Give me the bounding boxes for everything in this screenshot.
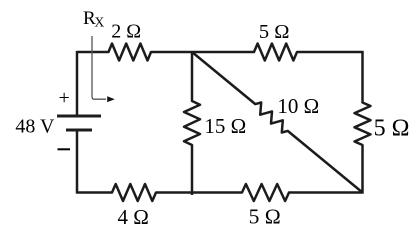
svg-text:5 Ω: 5 Ω xyxy=(374,116,410,142)
svg-text:15 Ω: 15 Ω xyxy=(204,114,246,138)
svg-text:5 Ω: 5 Ω xyxy=(249,205,281,229)
svg-text:+: + xyxy=(59,87,70,109)
svg-text:48 V: 48 V xyxy=(15,116,55,138)
svg-text:5 Ω: 5 Ω xyxy=(259,21,290,43)
svg-text:10 Ω: 10 Ω xyxy=(277,94,319,118)
svg-text:2 Ω: 2 Ω xyxy=(111,21,141,43)
svg-text:4 Ω: 4 Ω xyxy=(118,205,149,229)
svg-text:X: X xyxy=(95,15,105,30)
